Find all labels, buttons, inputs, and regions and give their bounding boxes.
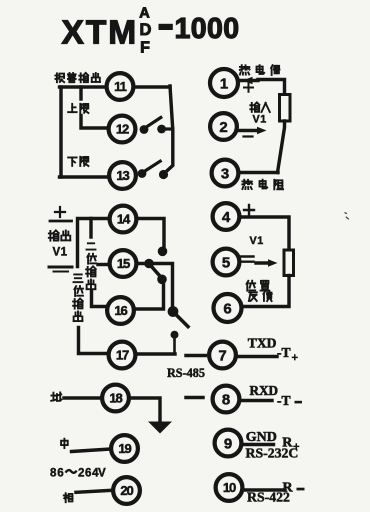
potentiometer (position feedback) <box>284 250 294 276</box>
relay contact 17: lever (open) <box>174 313 188 327</box>
svg-text:GND: GND <box>246 430 277 445</box>
terminal 15 <box>110 250 137 277</box>
svg-text:-T: -T <box>277 393 291 408</box>
terminal 16 <box>107 297 134 324</box>
svg-text:16: 16 <box>114 303 127 318</box>
terminal 11 <box>107 73 134 100</box>
wire: label down to terminal 16 <box>92 291 109 307</box>
label "中" (neutral) <box>61 439 68 448</box>
relay contact 17: pole dot <box>168 306 179 317</box>
svg-text:+: + <box>292 352 299 364</box>
terminal 8 <box>213 386 240 413</box>
wire: upper-limit to terminal 12 <box>81 116 109 129</box>
wire: terminal 3 RTD lead <box>240 171 279 174</box>
svg-text:V: V <box>98 467 106 480</box>
wire: throw dot tail <box>173 338 176 353</box>
wire: stub left of terminal 8 <box>186 396 203 399</box>
changeover contact: lever <box>150 265 161 278</box>
terminal 9 <box>215 430 242 457</box>
label "二位输出" (two-position output), vertical <box>86 243 96 289</box>
svg-text:XTM: XTM <box>62 15 139 52</box>
relay contact 13: pole dot <box>138 169 147 178</box>
arrowhead: wiper into potentiometer <box>268 259 278 267</box>
terminal 2 <box>210 113 237 140</box>
wire: to input resistor <box>258 80 285 95</box>
label "三位输出" (three-position output), vertical <box>73 274 83 321</box>
svg-text:1: 1 <box>220 75 228 92</box>
svg-text:V1: V1 <box>250 235 264 247</box>
terminal 10 <box>216 474 243 501</box>
terminal 14 <box>110 206 137 233</box>
label "热电阻" (RTD) <box>242 180 283 190</box>
svg-text:3: 3 <box>221 165 229 182</box>
terminal 18 <box>102 385 129 412</box>
minus sign (input -) <box>244 135 253 137</box>
label "输出" (output) <box>49 231 70 241</box>
wire: terminal 2 sensor lead <box>237 129 259 132</box>
wire: terminal 8 RXD lead <box>239 399 272 402</box>
wire: resistor to RTD lead (diagonal) <box>278 121 285 173</box>
wire: output left rail to terminal 14 <box>78 219 111 267</box>
label "输入" (input) <box>250 103 270 113</box>
svg-text:4: 4 <box>222 209 231 226</box>
relay contact 17: throw dot <box>171 331 179 339</box>
title hyphen <box>159 24 173 30</box>
svg-text:7: 7 <box>218 347 226 364</box>
label "上限" (upper limit) <box>68 104 88 113</box>
svg-text:V1: V1 <box>53 247 68 259</box>
svg-text:F: F <box>140 40 150 57</box>
wire: terminal 5 wiper lead <box>256 261 269 264</box>
wire: two-position label to terminal 15 <box>98 263 110 266</box>
terminal 19 <box>111 435 138 462</box>
wire: lower throw down to terminal 16 <box>134 281 164 309</box>
terminal 7 <box>209 342 236 369</box>
minus sign (feedback -) bar 2 <box>240 261 254 263</box>
svg-text:TXD: TXD <box>248 336 277 351</box>
label "相" (phase) <box>64 493 73 502</box>
svg-text:12: 12 <box>116 122 129 137</box>
wire: phase to terminal 20 <box>76 490 113 492</box>
relay contact 12: lever <box>145 118 161 129</box>
plus sign (feedback +) <box>244 205 254 215</box>
wire: alarm right rail <box>164 86 173 174</box>
svg-text:RS-422: RS-422 <box>247 490 290 505</box>
wire: three-position label to terminal 17 <box>79 328 110 354</box>
wire: terminal 18 to ground <box>130 398 161 422</box>
relay contact 12: pole dot <box>140 125 149 134</box>
arrowhead on terminal 1 lead <box>243 77 253 85</box>
relay contact 13: lever <box>143 161 160 172</box>
svg-text:9: 9 <box>224 435 232 452</box>
wire: rail to terminal 13 <box>60 175 110 178</box>
wire: terminal 4 to potentiometer top <box>240 217 290 250</box>
minus bar 2 <box>54 271 69 273</box>
terminal 3 <box>212 160 239 187</box>
terminal 20 <box>113 477 140 504</box>
wire: terminal 17 right stub <box>136 352 176 355</box>
label "反馈" (feedback) <box>249 292 272 302</box>
terminal 17 <box>109 342 136 369</box>
terminal 1 <box>210 69 238 97</box>
label "下限" (lower limit) <box>68 157 88 166</box>
scan speck <box>345 213 349 220</box>
wire: alarm left rail <box>59 87 62 177</box>
changeover contact: lower throw dot (16) <box>157 275 167 285</box>
relay contact 13: throw dot <box>159 170 168 179</box>
svg-text:A: A <box>139 6 150 22</box>
svg-text:86: 86 <box>50 467 65 480</box>
wire: rail to terminal 11 <box>60 85 107 88</box>
svg-text:264: 264 <box>78 467 99 480</box>
svg-text:18: 18 <box>109 391 122 406</box>
plus sign (output V1 +) <box>55 207 65 217</box>
svg-text:1000: 1000 <box>175 13 240 45</box>
title model letters A/D/F <box>139 6 151 57</box>
wire: stub left of terminal 7 <box>186 354 206 357</box>
label "热电偶" (thermocouple) <box>240 65 280 75</box>
svg-text:V1: V1 <box>253 114 267 126</box>
svg-text:2: 2 <box>219 119 227 136</box>
svg-text:RS-485: RS-485 <box>167 366 205 380</box>
label "~" (supply voltage) <box>66 470 77 473</box>
wire: contact 12 to rail <box>162 127 173 130</box>
svg-text:14: 14 <box>117 212 131 227</box>
svg-text:RXD: RXD <box>250 383 279 398</box>
minus sign (feedback -) bar 1 <box>240 255 254 257</box>
minus bar (output V1 -) <box>49 266 72 269</box>
resistor (input shunt) <box>280 95 291 122</box>
svg-text:19: 19 <box>118 441 131 456</box>
label "-" subscript (R-) <box>297 488 305 491</box>
svg-text:RS-232C: RS-232C <box>246 446 299 461</box>
wire: terminal 11 to right rail <box>134 85 171 88</box>
wire: terminal 15 to right rail <box>137 264 173 309</box>
label "报警输出" (alarm output) <box>55 73 99 82</box>
svg-text:13: 13 <box>116 168 129 183</box>
terminal 12 <box>109 116 136 143</box>
label "地" (earth) <box>51 392 61 400</box>
wire: terminal 14 to contact <box>137 219 165 248</box>
arrowhead on terminal 2 lead <box>257 127 267 135</box>
ground symbol <box>148 422 172 434</box>
terminal 13 <box>109 162 136 189</box>
changeover contact: upper throw dot (14) <box>158 247 168 257</box>
relay contact 12: throw dot <box>157 125 166 134</box>
wire: stub above upper-limit label <box>79 87 82 99</box>
wire: neutral to terminal 19 <box>72 449 112 452</box>
wire: earth label to terminal 18 <box>64 396 102 399</box>
wire: terminal 1 sensor lead <box>238 79 258 82</box>
wire: terminal 7 TXD lead <box>236 355 278 358</box>
plus sign (input +) <box>244 83 253 92</box>
terminal 6 <box>214 294 242 322</box>
svg-text:10: 10 <box>223 480 236 495</box>
svg-text:20: 20 <box>120 483 133 498</box>
svg-text:6: 6 <box>223 300 231 317</box>
svg-text:11: 11 <box>114 79 126 94</box>
svg-text:17: 17 <box>116 348 129 363</box>
terminal 4 <box>213 203 240 230</box>
wire: + terminal bar <box>50 220 72 223</box>
wire: terminal 9 GND lead <box>241 443 274 446</box>
svg-text:-T: -T <box>277 345 291 360</box>
wire: terminal 6 to potentiometer bottom <box>242 276 289 307</box>
label "位置" (position) <box>247 281 270 291</box>
svg-text:D: D <box>140 21 152 39</box>
svg-text:5: 5 <box>222 254 230 271</box>
svg-text:8: 8 <box>222 391 230 408</box>
terminal 5 <box>213 249 240 276</box>
wire: stub above two-position label <box>89 219 92 238</box>
label "-" subscript <box>295 401 303 404</box>
changeover contact: common dot (15) <box>144 259 154 269</box>
svg-text:15: 15 <box>117 256 130 271</box>
wire: terminal 10 lead <box>243 488 285 491</box>
